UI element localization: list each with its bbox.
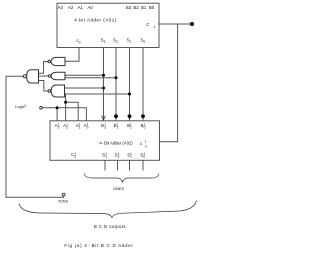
svg-text:4-bit Adder (A01): 4-bit Adder (A01): [74, 18, 117, 23]
svg-text:B01: B01: [141, 123, 146, 130]
svg-text:B2: B2: [133, 5, 139, 10]
svg-text:A0: A0: [87, 5, 93, 10]
svg-text:ONES: ONES: [113, 186, 125, 191]
svg-text:B3: B3: [126, 5, 132, 10]
svg-text:4- Bit Adder (A02): 4- Bit Adder (A02): [99, 141, 133, 146]
svg-text:c3: c3: [77, 38, 81, 45]
svg-text:B0: B0: [149, 5, 155, 10]
svg-text:A1: A1: [78, 5, 84, 10]
svg-text:B C D outputs: B C D outputs: [94, 224, 126, 229]
svg-text:S0: S0: [140, 38, 145, 45]
svg-text:S11: S11: [127, 152, 132, 159]
svg-text:S01: S01: [140, 152, 145, 159]
svg-text:Fig (a) 4- Bit B C D Adder: Fig (a) 4- Bit B C D Adder: [64, 243, 133, 248]
svg-text:S1: S1: [127, 38, 132, 45]
svg-text:B31: B31: [101, 123, 106, 130]
svg-text:B11: B11: [127, 123, 132, 130]
svg-text:A3: A3: [58, 5, 64, 10]
svg-text:S2: S2: [113, 38, 118, 45]
svg-text:S3: S3: [101, 38, 106, 45]
svg-text:S21: S21: [115, 152, 120, 159]
svg-text:C: C: [146, 22, 149, 27]
svg-text:TENS: TENS: [58, 200, 69, 204]
svg-text:A21: A21: [63, 123, 68, 130]
svg-text:Logic0: Logic0: [15, 104, 27, 109]
svg-text:-1: -1: [144, 144, 147, 148]
svg-text:B21: B21: [114, 123, 119, 130]
svg-text:-1: -1: [153, 25, 156, 29]
svg-text:S31: S31: [102, 152, 107, 159]
svg-text:A01: A01: [84, 123, 89, 130]
svg-text:c: c: [140, 141, 143, 146]
svg-text:A11: A11: [76, 123, 81, 130]
svg-text:A31: A31: [55, 123, 60, 130]
svg-text:C31: C31: [71, 152, 76, 159]
svg-text:B1: B1: [141, 5, 147, 10]
svg-text:A2: A2: [68, 5, 74, 10]
svg-text:1: 1: [145, 140, 147, 144]
